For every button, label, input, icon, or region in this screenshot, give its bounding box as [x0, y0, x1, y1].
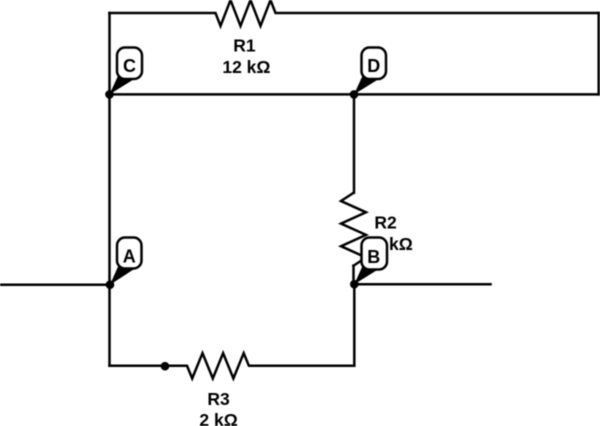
node B callout tail	[354, 262, 378, 285]
wire right side of top loop	[597, 13, 600, 94]
node C callout tail	[110, 72, 134, 95]
resistor R2	[341, 193, 366, 266]
junction dot on bottom wire	[161, 362, 170, 371]
node A junction dot	[106, 280, 115, 289]
svg-text:R1: R1	[233, 35, 256, 55]
wire node B to right	[354, 283, 490, 286]
node B callout box	[362, 238, 388, 270]
wire R2 to node B	[352, 266, 355, 285]
wire bottom with resistor R3	[110, 353, 355, 378]
wire top with resistor R1	[110, 0, 599, 26]
svg-text:12 kΩ: 12 kΩ	[222, 57, 270, 77]
node D callout tail	[354, 72, 378, 95]
node A callout box	[117, 238, 142, 269]
svg-text:R2: R2	[374, 213, 397, 233]
node B junction dot	[350, 280, 359, 289]
svg-text:2 kΩ: 2 kΩ	[199, 410, 237, 426]
wire node A to left edge	[1, 283, 110, 286]
wire D down to R2	[353, 94, 356, 192]
node D callout box	[362, 48, 387, 80]
node D junction dot	[350, 90, 359, 99]
node A callout tail	[110, 262, 134, 285]
svg-text:R3: R3	[207, 389, 230, 409]
wire left vertical C to A to bottom	[108, 13, 111, 366]
svg-text:A: A	[123, 247, 136, 267]
node C callout box	[117, 48, 142, 80]
node C junction dot	[105, 90, 114, 99]
wire horizontal C to D	[110, 93, 599, 96]
svg-text:D: D	[367, 56, 380, 76]
svg-text:B: B	[367, 247, 380, 267]
svg-text:C: C	[123, 56, 136, 76]
wire B down to bottom	[353, 284, 356, 366]
